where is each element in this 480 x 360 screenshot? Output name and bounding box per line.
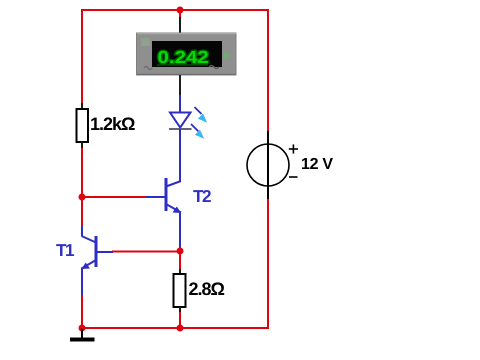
voltage source V1 minus sign bbox=[289, 176, 298, 178]
ammeter M1 display bbox=[152, 41, 222, 67]
resistor R2 body bbox=[174, 274, 186, 307]
svg-text:1.2kΩ: 1.2kΩ bbox=[90, 114, 135, 134]
svg-text:2.8Ω: 2.8Ω bbox=[189, 279, 225, 299]
wire R2 top lead bbox=[179, 269, 181, 275]
node junction bottom-left bbox=[79, 325, 86, 332]
node junction middle bbox=[177, 248, 184, 255]
wire resistor R1 top lead bbox=[81, 103, 83, 110]
wire left rail middle bbox=[81, 148, 83, 227]
ammeter M1 bevel highlight bbox=[137, 33, 236, 35]
wire T1 collector upper bbox=[81, 226, 83, 236]
voltage source V1 circle bbox=[247, 144, 289, 186]
LED D1 light arrow 1 bbox=[195, 107, 202, 114]
wire T1 base red bbox=[112, 251, 180, 253]
wire R2 bottom lead bbox=[179, 307, 181, 313]
voltage source V1 internal line bbox=[267, 144, 269, 186]
voltage source V1 plus sign bbox=[289, 144, 298, 153]
wire left rail upper bbox=[81, 9, 83, 103]
svg-text:0.242: 0.242 bbox=[158, 47, 210, 67]
node junction top bbox=[177, 7, 184, 14]
voltage source V1 lead bottom bbox=[267, 186, 269, 199]
wire right rail lower bbox=[267, 198, 269, 329]
resistor R1 body bbox=[77, 109, 89, 142]
wire resistor R2 top bbox=[179, 251, 181, 270]
LED D1 triangle bbox=[170, 113, 191, 128]
wire top rail bbox=[82, 9, 268, 11]
ammeter M1 accent arrow bbox=[224, 51, 232, 60]
wire right rail upper bbox=[267, 9, 269, 132]
wire resistor R2 bottom bbox=[179, 312, 181, 328]
wire meter bottom lead bbox=[179, 75, 181, 96]
LED D1 light arrow 2 bbox=[191, 124, 198, 131]
node junction left bbox=[79, 194, 86, 201]
wire left rail lower red bbox=[81, 295, 83, 328]
ground bar bbox=[70, 338, 95, 342]
ammeter M1 bevel shadow bbox=[137, 73, 236, 75]
ground stub bbox=[81, 328, 83, 338]
transistor T2 bbox=[146, 178, 181, 213]
wire T1 emitter blue bbox=[81, 268, 83, 295]
wire LED cathode to T2 collector bbox=[179, 129, 181, 181]
ammeter M1 accent square bbox=[141, 38, 150, 46]
wire LED anode bbox=[179, 95, 181, 113]
voltage source V1 lead top bbox=[267, 131, 269, 144]
wire meter top lead bbox=[179, 10, 181, 17]
wire resistor R1 bottom lead bbox=[81, 142, 83, 149]
wire T2 emitter down bbox=[179, 212, 181, 251]
svg-text:T1: T1 bbox=[56, 240, 75, 260]
ammeter M1 squiggle left bbox=[144, 67, 152, 70]
LED D1 cathode bar bbox=[169, 128, 192, 130]
node junction bottom-middle bbox=[177, 325, 184, 332]
svg-text:T2: T2 bbox=[193, 186, 211, 206]
wire T2 base red bbox=[82, 196, 147, 198]
wire bottom rail bbox=[82, 327, 268, 329]
transistor T1 (mirrored) bbox=[82, 236, 114, 269]
ammeter M1 panel bbox=[137, 33, 237, 75]
ammeter M1 squiggle right bbox=[209, 66, 219, 69]
svg-text:12 V: 12 V bbox=[301, 156, 333, 173]
